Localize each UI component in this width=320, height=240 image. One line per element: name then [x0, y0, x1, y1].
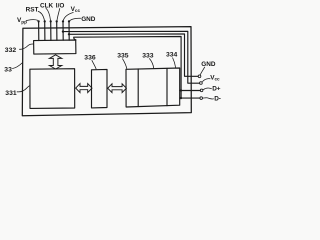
- divider 335|333: [137, 69, 139, 107]
- divider 333|334: [166, 68, 168, 105]
- block 331 CPU: [30, 69, 75, 109]
- leader RST: [38, 11, 45, 20]
- outer chip box 33: [22, 27, 191, 116]
- wire D- row: [180, 97, 200, 99]
- arrow 331-336 horizontal: [76, 84, 92, 93]
- wire I/O contact: [56, 21, 58, 40]
- wire Vpp contact: [38, 21, 40, 40]
- block 332 contact interface: [34, 40, 76, 54]
- leader GND(usb): [200, 67, 205, 75]
- wire GND bus to connector: [69, 34, 198, 76]
- svg-text:GND: GND: [201, 61, 216, 68]
- leader Vcc(usb): [202, 79, 210, 82]
- leader D-: [203, 98, 214, 99]
- svg-text:D+: D+: [212, 85, 221, 92]
- leader 336: [92, 60, 96, 69]
- leader Vcc(card): [63, 12, 73, 20]
- leader Vpp: [26, 20, 38, 21]
- svg-text:334: 334: [166, 52, 178, 59]
- wire data bus from 332 to 334: [74, 37, 181, 99]
- wire Vcc bus to connector: [63, 31, 200, 83]
- leader D+: [203, 88, 212, 90]
- junction GND bus: [68, 33, 70, 35]
- block 335/333/334 group: [126, 68, 180, 107]
- leader 334: [173, 58, 176, 68]
- wire CLK contact: [50, 21, 52, 40]
- svg-text:Vpp: Vpp: [17, 17, 27, 24]
- svg-text:CLK: CLK: [40, 3, 54, 10]
- terminal circle Vcc: [200, 82, 203, 85]
- terminal circle D-: [200, 97, 203, 100]
- wire RST contact: [44, 21, 46, 40]
- terminal circle D+: [200, 89, 203, 92]
- svg-text:Vcc: Vcc: [210, 74, 220, 81]
- junction Vcc bus: [62, 30, 64, 32]
- leader GND(card): [70, 18, 81, 21]
- leader 335: [122, 59, 126, 69]
- node dot I/O wire top: [56, 20, 58, 22]
- arrow 332-331 vertical: [49, 55, 61, 69]
- leader 33: [12, 63, 22, 69]
- leader 333: [149, 58, 154, 68]
- hollow double arrows: [49, 55, 126, 93]
- junction D-: [180, 97, 182, 99]
- node dot GND wire top: [68, 20, 70, 22]
- terminal circle GND: [198, 75, 201, 78]
- svg-text:GND: GND: [81, 16, 96, 23]
- node dot Vcc wire top: [62, 20, 64, 22]
- svg-text:I/O: I/O: [56, 3, 65, 10]
- svg-text:336: 336: [84, 54, 96, 61]
- node dot Vpp wire top: [37, 20, 39, 22]
- svg-text:335: 335: [117, 53, 129, 60]
- wire D+ row: [180, 90, 201, 92]
- svg-text:332: 332: [5, 47, 17, 54]
- node dot RST wire top: [44, 20, 46, 22]
- wire GND contact: [68, 21, 70, 40]
- leader 331: [17, 86, 30, 92]
- wire Vcc contact: [62, 21, 64, 40]
- svg-text:RST: RST: [26, 6, 39, 13]
- svg-text:D-: D-: [214, 96, 221, 103]
- svg-text:331: 331: [5, 90, 17, 97]
- node dot CLK wire top: [50, 20, 52, 22]
- svg-text:Vcc: Vcc: [71, 6, 81, 13]
- arrow 336-335 horizontal: [108, 84, 127, 93]
- leader I/O: [57, 8, 60, 20]
- block 336 memory: [92, 69, 108, 108]
- leader CLK: [46, 8, 51, 20]
- leader 332: [19, 44, 33, 49]
- junction D+: [180, 89, 182, 91]
- svg-text:333: 333: [142, 53, 154, 60]
- svg-text:33: 33: [4, 66, 12, 73]
